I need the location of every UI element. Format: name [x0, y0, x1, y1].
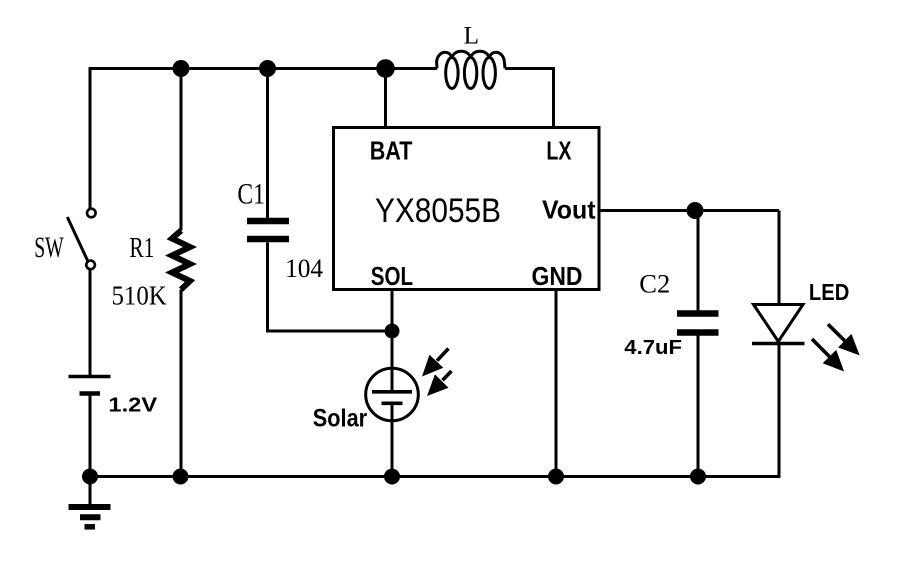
svg-text:510K: 510K: [112, 280, 168, 310]
svg-text:GND: GND: [532, 261, 583, 291]
svg-text:C1: C1: [237, 178, 265, 211]
svg-text:L: L: [464, 20, 480, 49]
svg-text:104: 104: [285, 254, 323, 283]
svg-text:BAT: BAT: [370, 136, 413, 166]
svg-text:LX: LX: [546, 136, 571, 166]
svg-text:1.2V: 1.2V: [108, 393, 157, 416]
svg-text:SOL: SOL: [371, 261, 413, 291]
svg-text:SW: SW: [34, 231, 64, 264]
svg-text:4.7uF: 4.7uF: [624, 337, 682, 359]
svg-text:LED: LED: [809, 279, 849, 305]
svg-text:Solar: Solar: [313, 404, 368, 432]
svg-text:C2: C2: [639, 270, 670, 299]
svg-text:R1: R1: [129, 232, 154, 264]
svg-text:Vout: Vout: [542, 195, 596, 225]
svg-text:YX8055B: YX8055B: [375, 192, 501, 230]
